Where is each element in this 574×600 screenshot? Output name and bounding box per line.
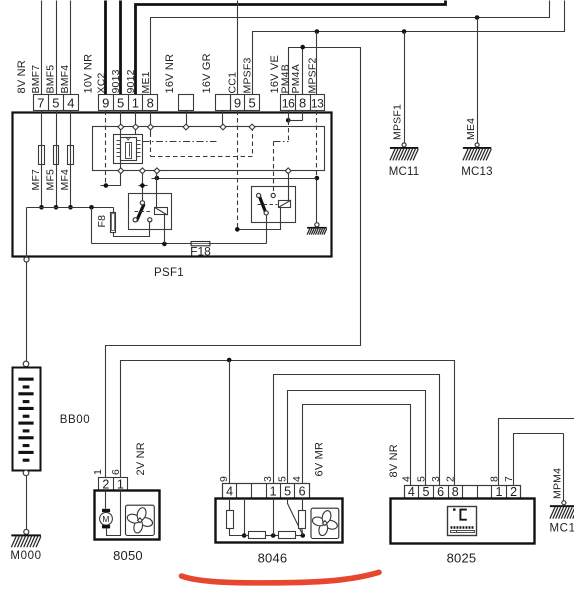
svg-text:16V NR: 16V NR xyxy=(164,54,176,94)
svg-text:F8: F8 xyxy=(96,215,108,228)
svg-text:5: 5 xyxy=(284,484,291,498)
svg-text:BB00: BB00 xyxy=(60,414,91,426)
svg-text:8046: 8046 xyxy=(258,551,288,566)
svg-text:8025: 8025 xyxy=(447,551,477,566)
svg-text:MPSF3: MPSF3 xyxy=(241,57,253,93)
svg-text:MC11: MC11 xyxy=(389,166,420,178)
svg-text:MF5: MF5 xyxy=(44,169,56,191)
svg-text:8: 8 xyxy=(488,476,500,482)
svg-text:ME1: ME1 xyxy=(140,71,152,93)
svg-text:5: 5 xyxy=(52,96,59,111)
svg-text:2: 2 xyxy=(444,476,456,482)
svg-text:2: 2 xyxy=(102,477,109,491)
svg-text:9: 9 xyxy=(102,96,109,111)
svg-text:8: 8 xyxy=(299,96,306,111)
svg-text:3: 3 xyxy=(262,476,274,482)
svg-text:ME4: ME4 xyxy=(465,118,477,140)
svg-text:9013: 9013 xyxy=(110,69,122,93)
svg-text:6V MR: 6V MR xyxy=(313,442,325,477)
svg-text:MF4: MF4 xyxy=(59,169,71,191)
svg-text:CC1: CC1 xyxy=(226,72,238,94)
svg-text:1: 1 xyxy=(270,484,277,498)
svg-text:9: 9 xyxy=(234,96,241,111)
svg-text:4: 4 xyxy=(291,476,303,482)
svg-text:7: 7 xyxy=(37,96,44,111)
svg-text:8: 8 xyxy=(147,96,154,111)
svg-text:4: 4 xyxy=(67,96,74,111)
svg-text:5: 5 xyxy=(277,476,289,482)
svg-text:MC15: MC15 xyxy=(550,523,574,535)
svg-text:5: 5 xyxy=(117,96,124,111)
svg-text:5: 5 xyxy=(423,485,430,499)
svg-text:MPM4: MPM4 xyxy=(551,468,563,499)
svg-text:8050: 8050 xyxy=(113,548,143,563)
svg-text:2V NR: 2V NR xyxy=(135,442,147,475)
svg-text:XC2: XC2 xyxy=(95,72,107,93)
svg-text:3: 3 xyxy=(430,476,442,482)
svg-text:2: 2 xyxy=(510,485,517,499)
svg-text:1: 1 xyxy=(117,477,124,491)
svg-text:6: 6 xyxy=(110,469,122,475)
svg-text:F18: F18 xyxy=(190,245,211,259)
svg-text:BMF4: BMF4 xyxy=(59,65,71,94)
svg-text:PSF1: PSF1 xyxy=(154,267,184,279)
svg-text:9: 9 xyxy=(218,476,230,482)
svg-text:8V NR: 8V NR xyxy=(388,444,400,477)
svg-text:6: 6 xyxy=(299,484,306,498)
svg-text:5: 5 xyxy=(415,476,427,482)
svg-text:16V GR: 16V GR xyxy=(201,53,213,93)
svg-text:PM4A: PM4A xyxy=(290,64,302,93)
svg-text:13: 13 xyxy=(311,97,324,111)
svg-text:MPSF2: MPSF2 xyxy=(306,57,318,93)
svg-text:1: 1 xyxy=(496,485,503,499)
svg-text:7: 7 xyxy=(503,476,515,482)
svg-text:BMF5: BMF5 xyxy=(44,65,56,94)
svg-text:BMF7: BMF7 xyxy=(30,65,42,94)
svg-text:6: 6 xyxy=(437,485,444,499)
svg-text:8: 8 xyxy=(452,485,459,499)
svg-text:MC13: MC13 xyxy=(461,166,492,178)
svg-text:M: M xyxy=(102,514,109,524)
svg-text:4: 4 xyxy=(408,485,415,499)
svg-text:9012: 9012 xyxy=(125,69,137,93)
svg-text:5: 5 xyxy=(248,96,255,111)
svg-text:1: 1 xyxy=(92,469,104,475)
svg-text:4: 4 xyxy=(226,484,233,498)
svg-text:M000: M000 xyxy=(10,550,41,562)
svg-text:4: 4 xyxy=(401,476,413,482)
svg-text:MPSF1: MPSF1 xyxy=(391,104,403,140)
svg-text:1: 1 xyxy=(132,96,139,111)
svg-text:MF7: MF7 xyxy=(30,169,42,191)
svg-text:8V NR: 8V NR xyxy=(16,60,28,93)
svg-text:10V NR: 10V NR xyxy=(82,54,94,94)
svg-text:16: 16 xyxy=(282,97,295,111)
